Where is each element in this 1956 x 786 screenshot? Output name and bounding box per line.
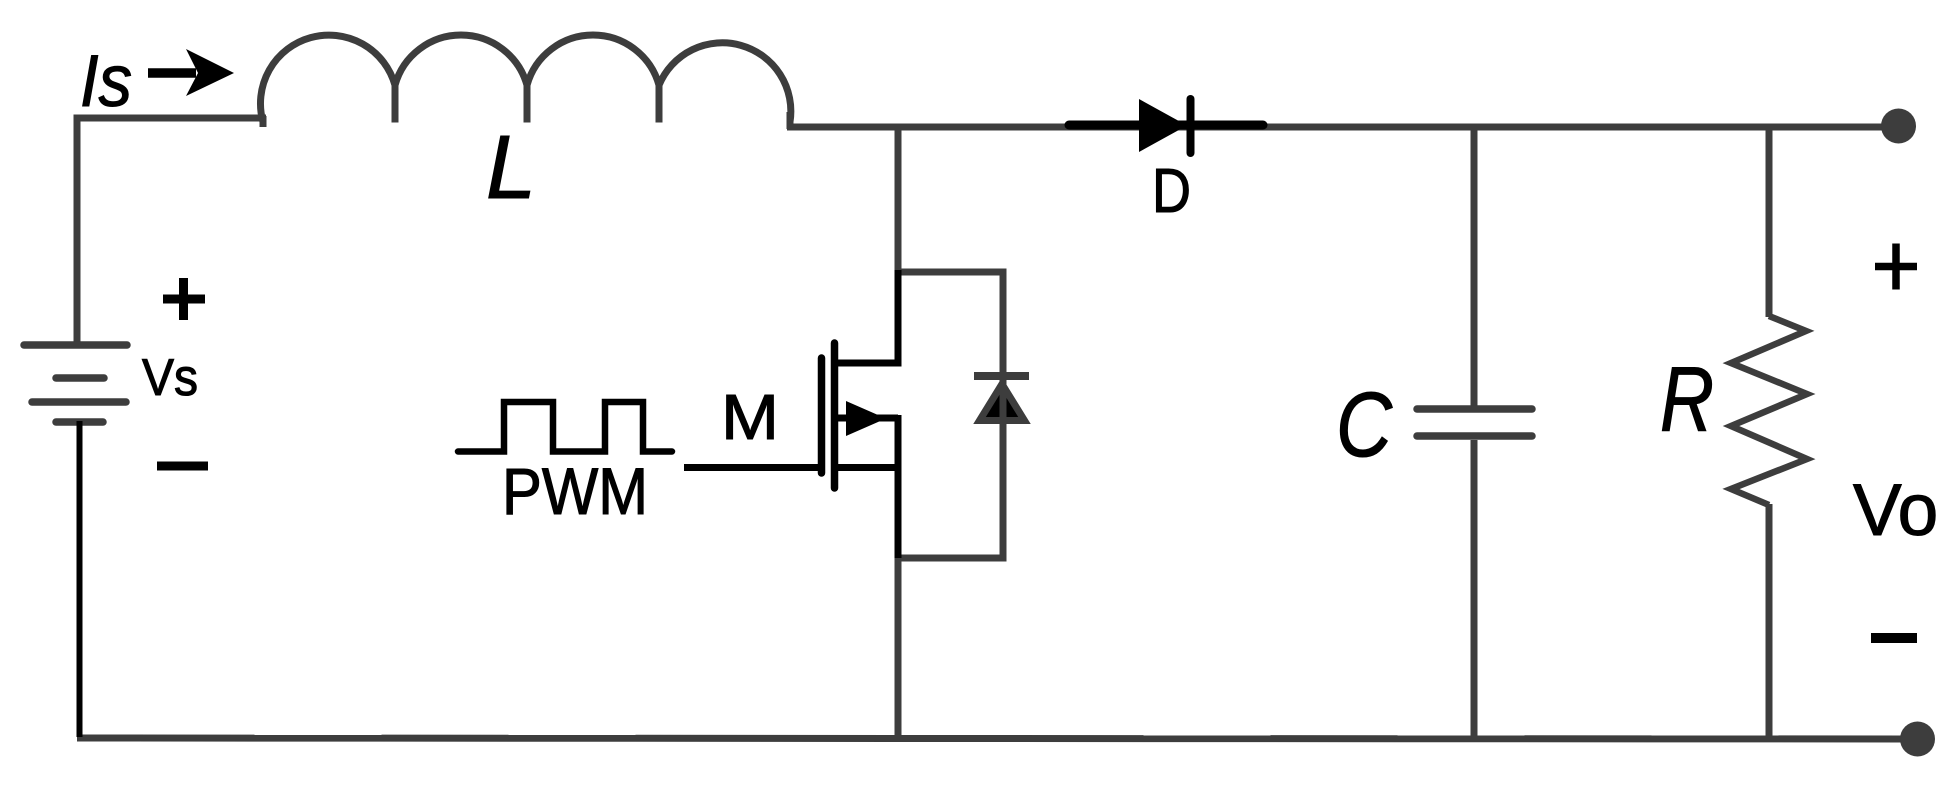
svg-text:Is: Is — [80, 41, 132, 122]
svg-text:D: D — [1152, 157, 1191, 226]
svg-text:Vo: Vo — [1853, 470, 1938, 551]
svg-text:Vs: Vs — [142, 349, 198, 407]
svg-text:C: C — [1336, 374, 1392, 476]
svg-text:R: R — [1660, 349, 1714, 451]
svg-text:PWM: PWM — [502, 454, 648, 528]
svg-text:L: L — [486, 118, 536, 218]
svg-text:M: M — [721, 381, 779, 453]
